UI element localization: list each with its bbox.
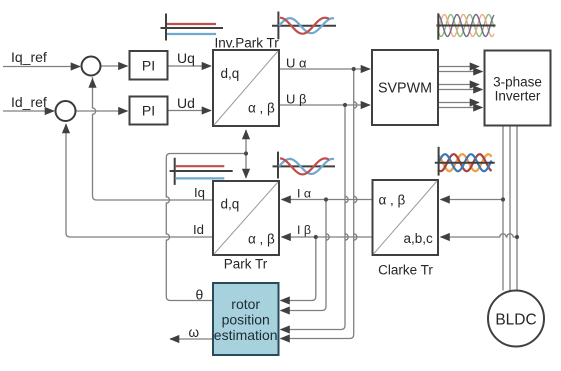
wire U beta from Inv.Park Tr to SVPWM xyxy=(279,104,370,106)
svg-text:3-phase: 3-phase xyxy=(493,75,542,90)
block 3-phase Inverter xyxy=(485,51,551,126)
icon two-phase sine above Inv.Park Tr (U alpha/beta) xyxy=(272,12,336,40)
wire Id_ref input to summing junction 2 xyxy=(3,110,54,112)
arrow into summing junction 1 from below xyxy=(92,77,94,79)
block Park Tr xyxy=(213,181,279,255)
svg-text:d,q: d,q xyxy=(221,197,240,212)
wire PWM pair 2 line a to 3-phase inverter xyxy=(439,84,480,86)
svg-text:d,q: d,q xyxy=(221,66,240,81)
wire Iq feedback from Park Tr up to summing junction 1 xyxy=(93,79,214,201)
diagonal of Park Tr xyxy=(214,182,278,254)
icon step response top (Uq/Ud references) xyxy=(161,14,224,41)
svg-text:Id: Id xyxy=(193,222,204,237)
wire PWM pair 3 line a to 3-phase inverter xyxy=(439,102,480,104)
svg-text:position: position xyxy=(222,312,270,328)
wire U alpha from Inv.Park Tr to SVPWM xyxy=(279,68,370,70)
icon step response left of Park Tr (Iq/Id) xyxy=(170,158,233,185)
svg-text:U β: U β xyxy=(286,92,306,107)
wire I alpha branch to rotor position estimation input 2 xyxy=(281,200,330,311)
svg-text:α , β: α , β xyxy=(248,232,275,247)
svg-text:I α: I α xyxy=(297,187,311,201)
wire PI2 output Ud to Inv.Park Tr xyxy=(168,110,212,112)
svg-text:Iq: Iq xyxy=(194,185,205,200)
wire U beta branch to rotor position estimation input 3 xyxy=(281,105,349,330)
svg-text:Park Tr: Park Tr xyxy=(224,257,268,272)
wire I alpha from Clarke Tr to Park Tr xyxy=(282,199,373,201)
wire inverter phase A to BLDC xyxy=(502,126,504,291)
svg-text:θ: θ xyxy=(196,287,204,303)
wire theta up into Inv.Park Tr bottom xyxy=(245,130,247,154)
wire PWM pair 3 line b to 3-phase inverter xyxy=(439,107,483,109)
wire phase A current tap to Clarke Tr xyxy=(441,199,504,201)
junction U beta branch xyxy=(343,103,347,107)
junction phase C tap xyxy=(515,235,519,239)
wire inverter phase B to BLDC xyxy=(509,126,511,291)
wire I beta from Clarke Tr to Park Tr xyxy=(282,236,373,238)
junction I beta branch xyxy=(314,235,318,239)
svg-text:a,b,c: a,b,c xyxy=(404,231,434,246)
svg-text:Ud: Ud xyxy=(177,95,195,111)
wire inverter phase C to BLDC xyxy=(516,126,518,291)
summing junction 1 (Iq) xyxy=(82,57,101,76)
svg-text:Uq: Uq xyxy=(177,50,195,66)
junction theta xyxy=(244,151,248,155)
svg-text:ω: ω xyxy=(189,325,200,340)
icon three-phase current sine above Clarke Tr xyxy=(435,147,495,176)
svg-text:α , β: α , β xyxy=(248,101,275,116)
wire phase C current tap to Clarke Tr with hops xyxy=(441,234,518,237)
svg-text:I β: I β xyxy=(297,223,311,237)
wire I beta branch to rotor position estimation input 1 xyxy=(281,237,316,301)
svg-text:BLDC: BLDC xyxy=(495,312,536,329)
diagonal of Clarke Tr xyxy=(374,181,438,254)
block PI controller 2 (d axis) xyxy=(130,97,168,125)
junction U alpha branch xyxy=(352,67,356,71)
svg-text:estimation: estimation xyxy=(214,327,278,343)
wire PWM pair 2 line b to 3-phase inverter xyxy=(439,89,483,91)
wire Iq_ref input to summing junction 1 xyxy=(3,66,80,68)
junction I alpha branch xyxy=(324,197,328,201)
wire summing junction 2 to PI2 xyxy=(76,110,128,112)
block SVPWM xyxy=(372,50,438,125)
wire PWM pair 1 line b to 3-phase inverter xyxy=(439,71,483,73)
wire PI1 output Uq to Inv.Park Tr xyxy=(168,65,212,67)
wire U alpha branch to rotor position estimation input 4 xyxy=(281,69,357,339)
block PI controller 1 (q axis) xyxy=(130,51,168,80)
svg-text:α , β: α , β xyxy=(379,193,406,208)
svg-text:Clarke Tr: Clarke Tr xyxy=(378,263,433,278)
svg-text:Id_ref: Id_ref xyxy=(11,94,47,110)
BLDC motor circle xyxy=(488,291,544,347)
wire theta from rotor position estimation to transform blocks xyxy=(166,154,246,301)
junction phase A tap xyxy=(501,197,505,201)
svg-text:PI: PI xyxy=(142,103,155,119)
svg-text:Inverter: Inverter xyxy=(495,89,541,104)
wire PWM pair 1 line a to 3-phase inverter xyxy=(439,66,480,68)
diagonal of Inv.Park Tr xyxy=(214,51,278,125)
svg-text:PI: PI xyxy=(142,58,155,74)
svg-text:Inv.Park Tr: Inv.Park Tr xyxy=(215,36,280,51)
svg-text:rotor: rotor xyxy=(231,296,260,312)
svg-text:U α: U α xyxy=(286,56,307,71)
icon three-phase PWM sine above inverter xyxy=(436,13,495,40)
block rotor position estimation xyxy=(213,283,279,355)
svg-text:Iq_ref: Iq_ref xyxy=(11,49,47,65)
icon two-phase sine above Park Tr (I alpha/beta) xyxy=(273,152,336,179)
wire Id feedback from Park Tr up to summing junction 2 xyxy=(66,124,213,237)
svg-text:SVPWM: SVPWM xyxy=(378,81,432,97)
block Clarke Tr xyxy=(373,180,439,255)
wire summing junction 1 to PI1 xyxy=(101,65,128,67)
wire omega output of rotor position estimation xyxy=(170,338,213,340)
block Inv.Park Tr xyxy=(213,50,279,126)
summing junction 2 (Id) xyxy=(56,101,76,121)
wire theta down into Park Tr top xyxy=(245,154,247,179)
